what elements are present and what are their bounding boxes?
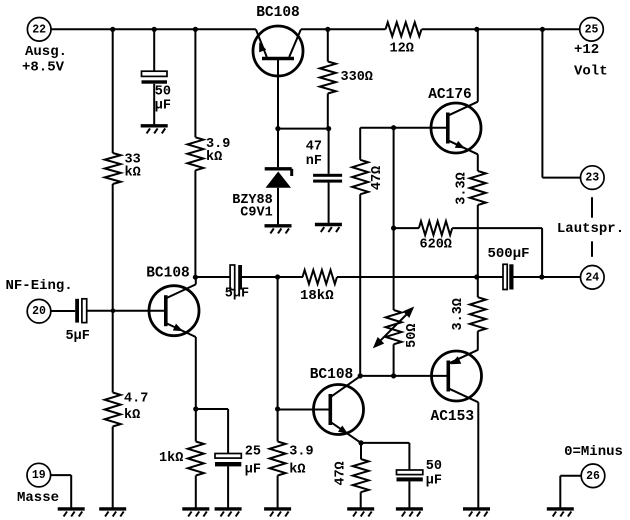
svg-text:25: 25 — [245, 444, 261, 459]
label BZY88 C9V1 — [232, 193, 273, 220]
svg-text:+12: +12 — [574, 42, 599, 58]
wire base drive to AC153 — [360, 375, 448, 377]
ground 50uF emitter — [396, 509, 423, 517]
wire Q2 collector to node — [195, 277, 197, 284]
svg-text:BC108: BC108 — [256, 5, 300, 21]
resistor 3.9k (bias) — [270, 409, 286, 509]
wire 50uF drop — [153, 29, 155, 125]
wire AC176 collector to rail — [477, 29, 479, 101]
svg-text:12Ω: 12Ω — [390, 41, 414, 56]
node rail/speaker column — [540, 27, 545, 32]
wire 500uF to T24 — [514, 276, 581, 278]
label 3.3R lower — [451, 298, 466, 330]
wire AC153 collector to ground — [477, 402, 479, 509]
svg-text:18kΩ: 18kΩ — [300, 288, 334, 304]
label Ausg. +8.5V — [22, 44, 67, 76]
node AC176 base / pot column — [391, 125, 396, 130]
node Q3 emitter — [358, 440, 363, 445]
svg-text:NF-Eing.: NF-Eing. — [6, 278, 73, 294]
ground 3.9k bias — [264, 509, 291, 517]
wire 47R/AC176 base column — [360, 128, 448, 376]
node AC153 base drive — [391, 373, 396, 378]
label 3.3R upper — [455, 172, 470, 204]
label 18k — [300, 288, 334, 304]
svg-text:+8.5V: +8.5V — [22, 60, 65, 76]
svg-text:5µF: 5µF — [225, 287, 249, 302]
label Lautspr. — [557, 221, 624, 237]
label BC108 (Q2) — [146, 265, 190, 281]
ground 47R — [347, 509, 374, 517]
label 47R upper — [370, 166, 385, 190]
svg-text:µF: µF — [245, 462, 261, 477]
resistor 620R — [394, 221, 542, 277]
resistor 12R — [386, 22, 422, 36]
svg-text:µF: µF — [155, 99, 171, 114]
svg-text:BC108: BC108 — [146, 265, 190, 281]
svg-text:kΩ: kΩ — [125, 166, 141, 181]
node rail/3.9k — [193, 27, 198, 32]
capacitor 47nF — [313, 129, 342, 224]
node output / 3.3R junction — [474, 274, 479, 279]
svg-text:Masse: Masse — [17, 490, 59, 506]
ground 50uF — [141, 126, 168, 134]
transistor Q2 BC108 (input stage) — [149, 284, 199, 337]
wire node to Q3 base — [278, 409, 331, 411]
wire Q3 emitter node to 47R and 50uF — [361, 443, 409, 470]
wire pot column — [393, 128, 395, 376]
capacitor 50uF (rail) — [142, 71, 168, 84]
terminal 22 — [27, 18, 51, 42]
label AC176 — [428, 87, 472, 103]
ground 1k — [182, 509, 209, 517]
label +12 Volt — [574, 42, 608, 80]
capacitor 25uF — [215, 454, 241, 467]
svg-text:3.3Ω: 3.3Ω — [451, 298, 466, 330]
transistor Q4 AC176 (upper output) — [431, 102, 481, 155]
svg-text:26: 26 — [586, 470, 600, 483]
ground 25uF — [215, 509, 242, 517]
svg-text:23: 23 — [585, 172, 599, 185]
node rail/330R — [325, 27, 330, 32]
wire Q1 base lead — [277, 59, 279, 129]
resistor 4.7k — [105, 393, 121, 427]
terminal 26 — [581, 464, 605, 488]
svg-text:5µF: 5µF — [66, 329, 90, 344]
svg-text:3.3Ω: 3.3Ω — [455, 172, 470, 204]
label 0=Minus — [564, 444, 623, 460]
label 47R emitter — [333, 461, 348, 485]
wire T20 to input cap — [51, 310, 75, 312]
wire AC176 emitter to 3.3R — [477, 154, 479, 171]
label BC108 (Q1) — [256, 5, 300, 21]
capacitor 5uF input — [75, 299, 87, 323]
ground zener — [265, 226, 292, 234]
node rail/AC176 collector — [474, 27, 479, 32]
wire 25uF to ground — [227, 466, 229, 509]
svg-text:20: 20 — [32, 305, 46, 318]
wire emitter node to 25uF — [196, 409, 228, 454]
svg-text:AC176: AC176 — [428, 87, 472, 103]
label 1k — [159, 451, 183, 466]
wire 3.9k column — [194, 29, 196, 277]
svg-text:BC108: BC108 — [310, 367, 354, 383]
resistor 18k — [303, 270, 338, 284]
wire Q2 emitter down — [195, 337, 197, 409]
zener diode BZY88 C9V1 — [265, 129, 292, 225]
ground Masse — [58, 509, 85, 517]
label 620R — [420, 238, 452, 253]
svg-text:620Ω: 620Ω — [420, 238, 452, 253]
transistor Q1 BC108 (series regulator) — [253, 26, 303, 76]
node Q2 collector / 3.9k / 5uF — [193, 275, 198, 280]
svg-text:kΩ: kΩ — [289, 462, 305, 477]
resistor 47R (upper) — [352, 160, 368, 195]
label 12R — [390, 41, 414, 56]
speaker dashed link — [591, 197, 593, 257]
resistor 33k — [105, 153, 121, 184]
svg-text:kΩ: kΩ — [206, 150, 222, 165]
resistor 3.9k — [187, 137, 203, 170]
resistor 47R (emitter) — [353, 459, 369, 509]
node rail/33k column — [110, 27, 115, 32]
terminal 20 — [27, 299, 51, 323]
label 50uF emitter — [426, 459, 442, 489]
node Q3 base / 3.9k — [275, 406, 280, 411]
node Q3 collector — [358, 373, 363, 378]
svg-text:22: 22 — [32, 23, 46, 36]
label BC108 (Q3) — [310, 367, 354, 383]
wire 18k to output node — [337, 276, 503, 278]
resistor 1k — [188, 409, 204, 509]
svg-text:330Ω: 330Ω — [341, 70, 373, 85]
transistor Q5 AC153 (lower output) — [432, 350, 482, 403]
label 5uF input — [66, 329, 90, 344]
svg-text:Lautspr.: Lautspr. — [557, 221, 624, 237]
svg-text:µF: µF — [426, 473, 442, 488]
svg-text:Volt: Volt — [574, 64, 608, 80]
wire input cap to Q2 base — [87, 310, 166, 312]
svg-text:C9V1: C9V1 — [240, 205, 272, 220]
capacitor 5uF coupling — [230, 265, 242, 290]
wire Q3 base bias column — [277, 277, 279, 409]
wire top rail left segment — [51, 28, 256, 30]
label 330R — [341, 70, 373, 85]
label 50R — [405, 324, 420, 348]
ground 47nF — [315, 225, 342, 233]
node Q2 emitter / 1k / 25uF — [193, 406, 198, 411]
wire top rail right segment — [301, 28, 580, 30]
label NF-Eing. — [6, 278, 73, 294]
svg-text:47: 47 — [306, 140, 322, 155]
wire base node horizontal — [278, 128, 329, 130]
svg-text:47Ω: 47Ω — [333, 461, 348, 485]
label 25uF — [245, 444, 261, 477]
label Masse — [17, 490, 59, 506]
terminal 23 — [581, 166, 605, 190]
wire cap to 18k — [242, 276, 303, 278]
svg-text:4.7: 4.7 — [124, 392, 148, 407]
svg-text:50: 50 — [155, 85, 171, 100]
wire 50uF to ground — [408, 481, 410, 509]
svg-text:0=Minus: 0=Minus — [564, 444, 623, 460]
svg-text:47Ω: 47Ω — [370, 166, 385, 190]
capacitor 50uF (emitter) — [397, 470, 423, 481]
label 3.9k — [206, 137, 230, 165]
svg-text:1kΩ: 1kΩ — [159, 451, 183, 466]
node 620R tap — [391, 226, 396, 231]
wire speaker + column — [542, 29, 580, 177]
resistor 3.3R (lower) — [470, 277, 486, 350]
svg-text:AC153: AC153 — [431, 409, 475, 425]
ground 0=Minus — [547, 509, 574, 517]
svg-text:19: 19 — [32, 469, 46, 482]
svg-text:kΩ: kΩ — [124, 408, 140, 423]
svg-text:24: 24 — [585, 271, 599, 284]
wire 33k/4.7k divider column — [112, 29, 114, 509]
label 4.7k — [124, 392, 148, 424]
ground divider column — [99, 509, 126, 517]
potentiometer 50R — [373, 307, 414, 349]
svg-text:50Ω: 50Ω — [405, 324, 420, 348]
wire T26 to ground — [560, 476, 581, 509]
svg-text:nF: nF — [306, 154, 322, 169]
wire T19 to ground — [51, 475, 72, 509]
label 3.9k (bias) — [289, 444, 313, 477]
label AC153 — [431, 409, 475, 425]
node Q3 base feed — [275, 274, 280, 279]
label 500uF — [488, 246, 530, 262]
resistor 330R — [320, 29, 336, 128]
terminal 19 — [27, 463, 51, 487]
svg-text:3.9: 3.9 — [289, 444, 313, 459]
capacitor 500uF — [503, 264, 514, 289]
node Q1 base / zener — [275, 126, 280, 131]
node rail/50uF — [152, 27, 157, 32]
label 5uF coupling — [225, 287, 249, 302]
transistor Q3 BC108 (driver) — [314, 376, 364, 443]
svg-text:50: 50 — [426, 459, 442, 474]
node 330R / 47nF — [326, 126, 331, 131]
label 33k — [125, 153, 141, 181]
node T24 / 620R return — [539, 274, 544, 279]
terminal 25 — [580, 18, 604, 42]
wire node to 5uF coupling — [195, 276, 230, 278]
label 47nF — [306, 140, 322, 169]
terminal 24 — [581, 266, 605, 290]
node divider/base junction — [111, 308, 116, 313]
ground AC153 — [463, 509, 490, 517]
resistor 3.3R (upper) — [470, 171, 486, 277]
svg-text:500µF: 500µF — [488, 246, 530, 262]
svg-text:25: 25 — [585, 23, 599, 36]
svg-text:Ausg.: Ausg. — [25, 44, 67, 60]
label 50uF (rail) — [155, 85, 171, 114]
